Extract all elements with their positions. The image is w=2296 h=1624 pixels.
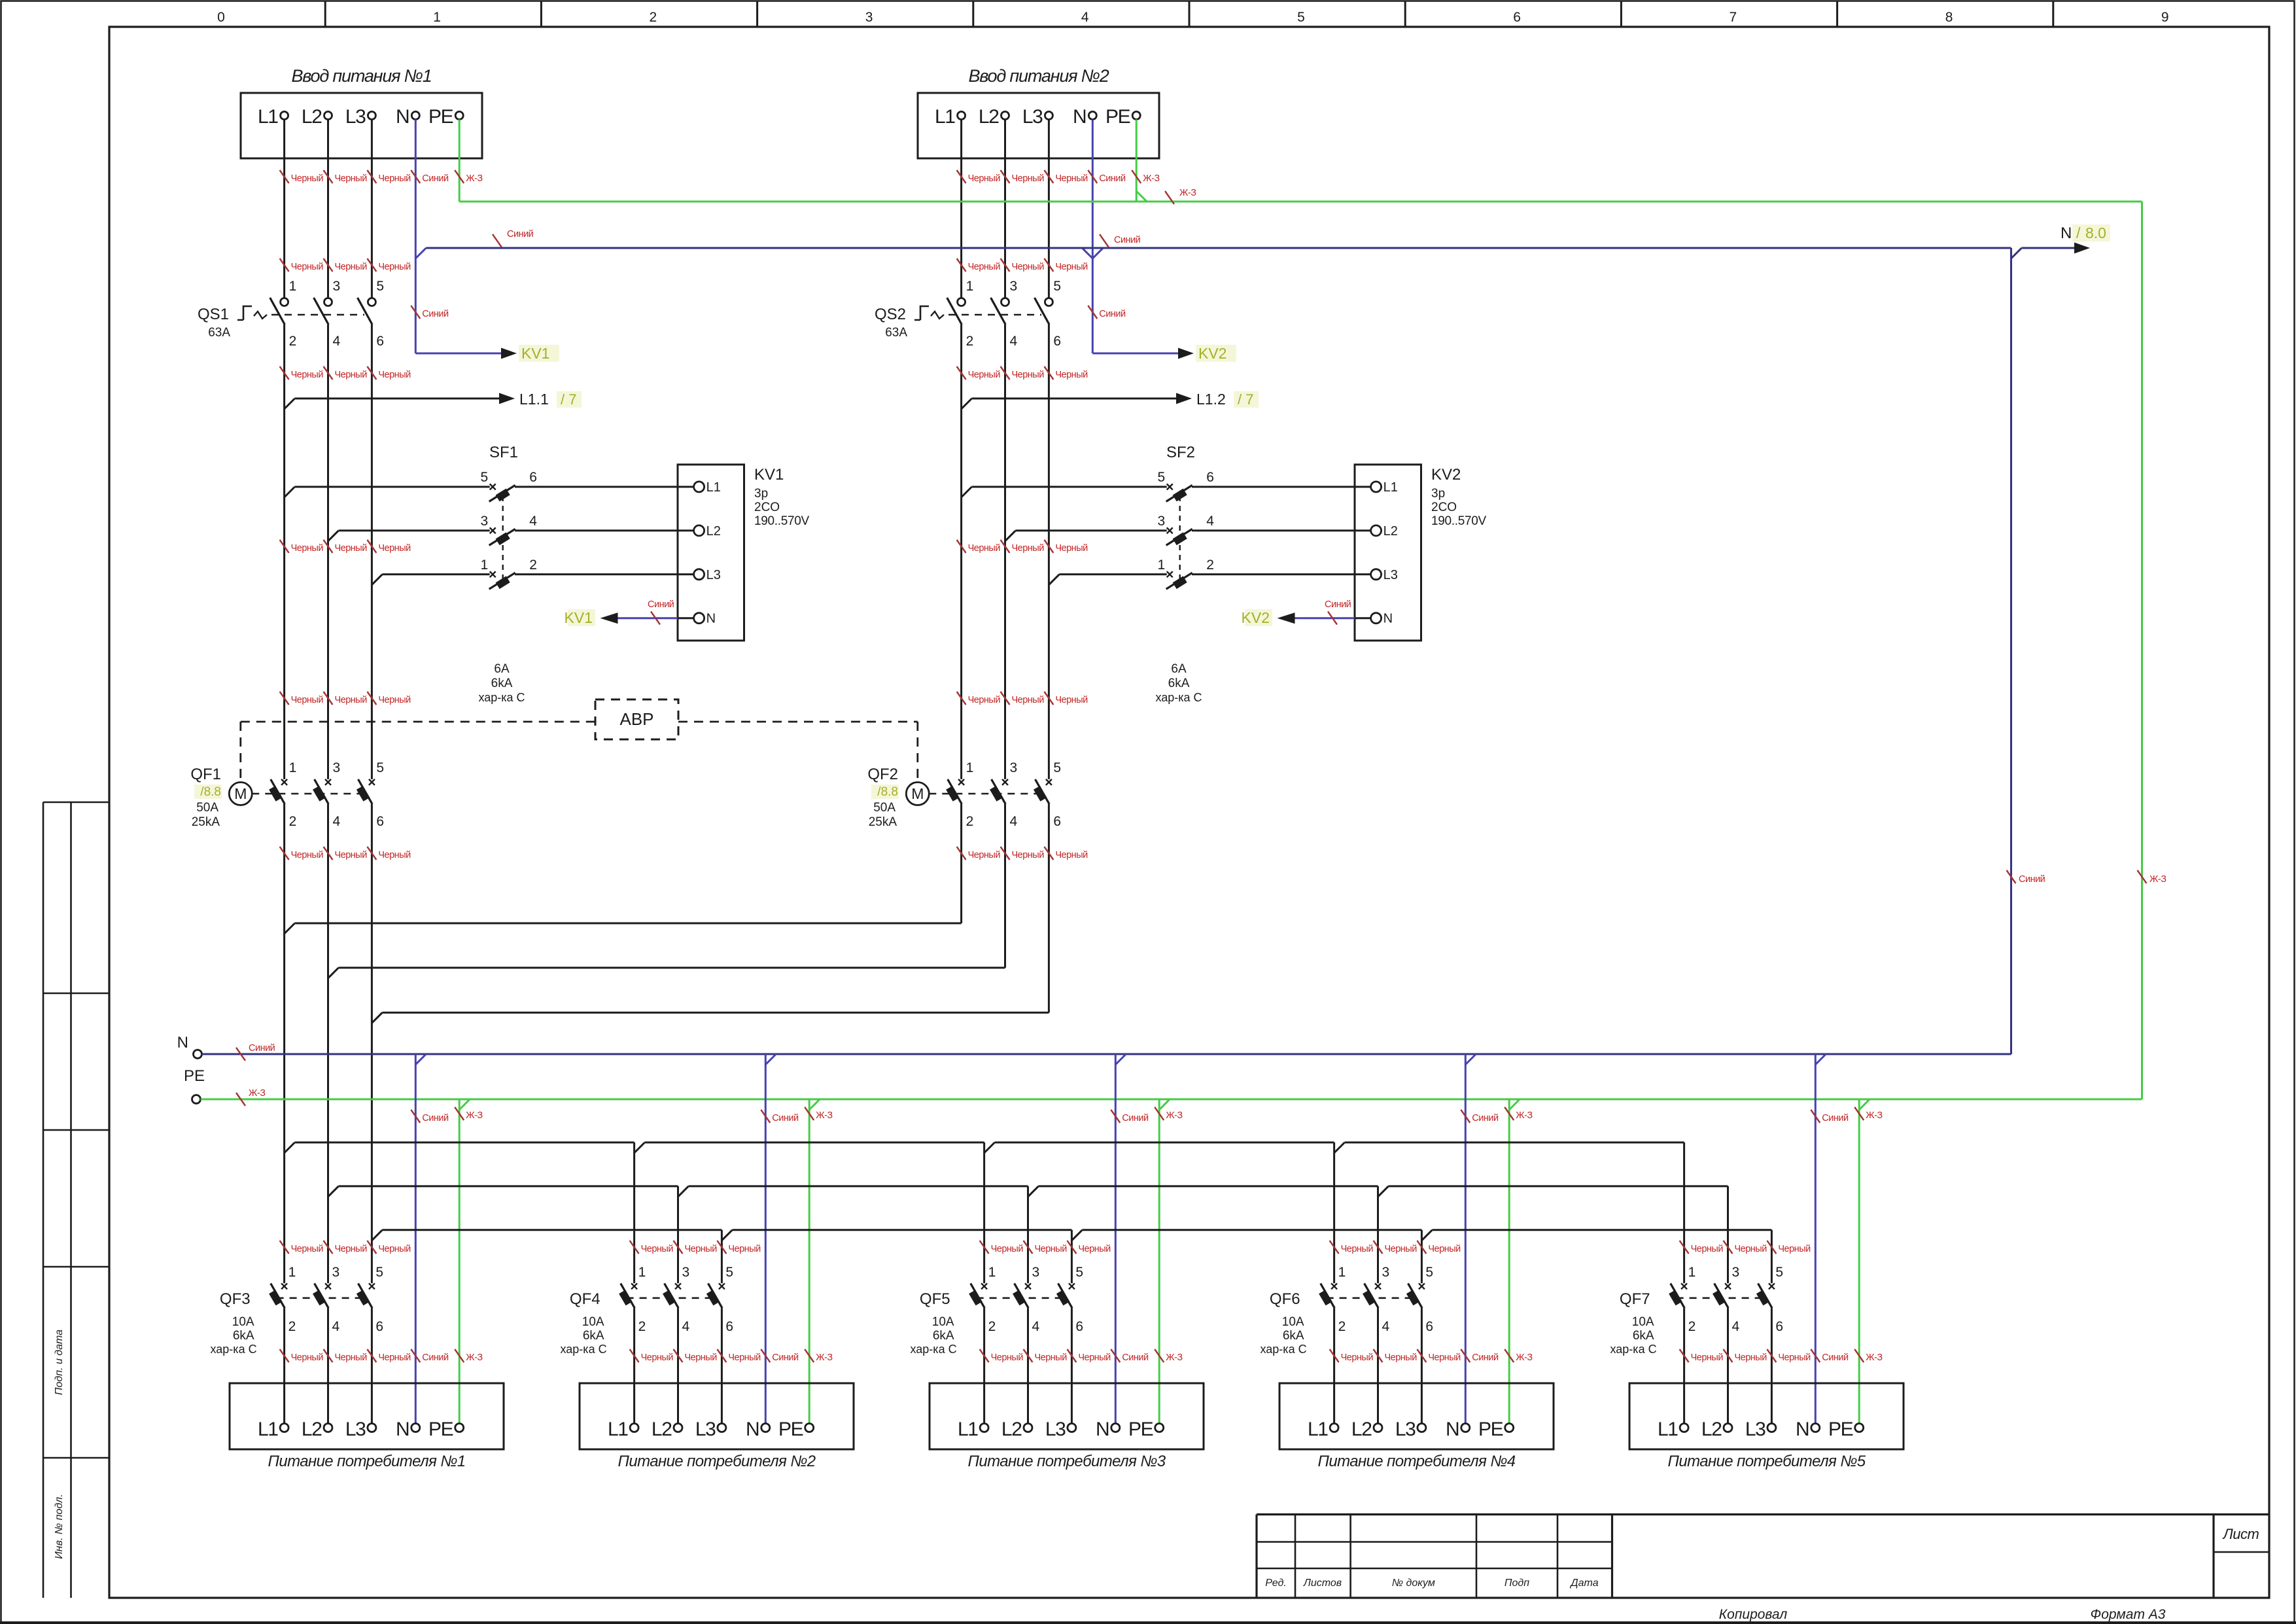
svg-text:АВР: АВР bbox=[619, 709, 653, 729]
input 2 terminal L1 bbox=[958, 112, 965, 120]
wire colour label Черный below QF4 x969 bbox=[630, 1349, 639, 1362]
svg-text:N: N bbox=[706, 612, 716, 626]
wire KV2 N to coil arrow bbox=[1355, 617, 1371, 619]
svg-text:Черный: Черный bbox=[1035, 1244, 1068, 1254]
junction PE bus drop group3 bbox=[1159, 1099, 1170, 1110]
junction PE bus drop group2 bbox=[809, 1099, 820, 1110]
svg-text:Черный: Черный bbox=[1055, 262, 1088, 272]
svg-text:1: 1 bbox=[289, 760, 297, 775]
svg-text:Ж-З: Ж-З bbox=[1166, 1352, 1183, 1363]
svg-text:L3: L3 bbox=[695, 1419, 716, 1440]
svg-text:Черный: Черный bbox=[1012, 695, 1045, 705]
wire colour label Ж-З below bus group2 bbox=[805, 1107, 814, 1120]
wire colour label Синий below bus group5 bbox=[1811, 1110, 1820, 1123]
svg-text:Черный: Черный bbox=[378, 850, 411, 860]
svg-text:Синий: Синий bbox=[648, 599, 674, 610]
wire input1 PE vertical bbox=[459, 120, 461, 202]
svg-text:QF1: QF1 bbox=[190, 766, 221, 783]
wire QF1 pole1 down to QF3 bbox=[283, 804, 285, 1284]
svg-text:PE: PE bbox=[1105, 106, 1130, 128]
svg-text:6kA: 6kA bbox=[583, 1329, 604, 1343]
svg-text:Черный: Черный bbox=[1385, 1352, 1418, 1363]
svg-text:4: 4 bbox=[1081, 10, 1089, 25]
svg-text:Питание потребителя №4: Питание потребителя №4 bbox=[1318, 1453, 1516, 1470]
svg-text:Черный: Черный bbox=[1078, 1352, 1111, 1363]
svg-text:1: 1 bbox=[988, 1265, 996, 1280]
wire colour label Ж-З below QF3 x702 bbox=[455, 1349, 464, 1362]
svg-text:Черный: Черный bbox=[1428, 1244, 1461, 1254]
wire QS1 pole2 down to QF1 bbox=[327, 325, 329, 779]
consumer 5 terminal L1 bbox=[1680, 1424, 1688, 1432]
wire colour label Синий below bus group2 bbox=[761, 1110, 770, 1123]
svg-text:4: 4 bbox=[333, 814, 341, 829]
svg-text:Черный: Черный bbox=[335, 370, 368, 380]
consumer box Питание потребителя №1 bbox=[230, 1383, 504, 1449]
svg-text:Черный: Черный bbox=[378, 370, 411, 380]
svg-text:6: 6 bbox=[1053, 334, 1061, 349]
title block table bbox=[1257, 1513, 2269, 1515]
wire colour label Синий above KV2 arrow bbox=[1088, 306, 1097, 319]
svg-text:Черный: Черный bbox=[728, 1352, 761, 1363]
wire colour label Ж-З below QF4 x1237 bbox=[805, 1349, 814, 1362]
wire colour label Ж-З below QF6 x2307 bbox=[1505, 1349, 1514, 1362]
wire colour label Синий below bus group3 bbox=[1111, 1110, 1120, 1123]
input 1 terminal L2 bbox=[324, 112, 332, 120]
wire colour label Черный above QS2 upper x1603 bbox=[1044, 258, 1053, 272]
input 1 terminal L1 bbox=[281, 112, 288, 120]
wire colour label Черный below QS1 x501 bbox=[324, 540, 333, 553]
svg-text:Копировал: Копировал bbox=[1719, 1607, 1788, 1622]
svg-text:N: N bbox=[177, 1034, 188, 1051]
svg-text:PE: PE bbox=[428, 106, 453, 128]
svg-text:Синий: Синий bbox=[1472, 1113, 1499, 1123]
svg-text:1: 1 bbox=[289, 279, 297, 294]
wire colour label Синий below QF4 x1170 bbox=[761, 1349, 770, 1362]
svg-text:6kA: 6kA bbox=[1168, 677, 1190, 690]
QF1 sheet ref bbox=[194, 785, 222, 799]
wire QF3 pole1 to consumer box bbox=[283, 1308, 285, 1423]
svg-text:L3: L3 bbox=[1395, 1419, 1416, 1440]
svg-text:6: 6 bbox=[376, 334, 384, 349]
svg-text:/ 7: / 7 bbox=[1238, 391, 1253, 408]
source arrow L1.1 /7 bbox=[499, 393, 515, 404]
wire colour label Ж-З input2 row x1737 bbox=[1132, 170, 1141, 183]
svg-text:7: 7 bbox=[1730, 10, 1737, 25]
breaker QF4 bbox=[631, 1283, 637, 1289]
svg-text:Черный: Черный bbox=[991, 1244, 1024, 1254]
svg-text:1: 1 bbox=[288, 1265, 296, 1280]
svg-text:Черный: Черный bbox=[685, 1244, 718, 1254]
wire input2 L2 to QS2 bbox=[1004, 120, 1006, 298]
svg-text:8: 8 bbox=[1945, 10, 1953, 25]
wire colour label Черный above QF1 x434 bbox=[280, 692, 289, 705]
wire colour label Черный below QF7 x2641 bbox=[1724, 1349, 1733, 1362]
consumer 2 terminal PE bbox=[805, 1424, 814, 1432]
wire colour label Черный below QF1 x568 bbox=[367, 847, 376, 860]
wire colour label Синий above KV1 arrow bbox=[411, 306, 420, 319]
consumer 3 terminal L1 bbox=[980, 1424, 988, 1432]
wire colour label Черный below QF2 x1603 bbox=[1044, 847, 1053, 860]
wire PE drop group4 bbox=[1508, 1099, 1510, 1424]
svg-text:Черный: Черный bbox=[335, 1352, 368, 1363]
svg-text:N: N bbox=[746, 1419, 759, 1440]
svg-text:Ж-З: Ж-З bbox=[2149, 874, 2166, 885]
svg-text:L2: L2 bbox=[302, 106, 322, 128]
svg-text:6: 6 bbox=[375, 1319, 383, 1334]
svg-text:хар-ка С: хар-ка С bbox=[478, 691, 525, 704]
svg-text:N: N bbox=[396, 1419, 409, 1440]
svg-text:Питание потребителя №1: Питание потребителя №1 bbox=[268, 1453, 466, 1470]
distribution row 3 segment to drop 3 bbox=[1082, 1229, 1421, 1231]
svg-text:5: 5 bbox=[1053, 760, 1061, 775]
wire KV1 N to coil arrow bbox=[678, 617, 694, 619]
wire drop row 3 to QF4 pole bbox=[721, 1230, 723, 1284]
wire QS2 pole2 down to QF2 bbox=[1004, 325, 1006, 779]
wire QF2 pole1 down to tie line 1 bbox=[960, 804, 962, 923]
wire colour label Черный below QF1 x434 bbox=[280, 847, 289, 860]
wire colour label Черный above QF5 x1571 bbox=[1024, 1241, 1033, 1254]
wire drop row 3 to QF5 pole bbox=[1071, 1230, 1073, 1284]
svg-text:5: 5 bbox=[1425, 1265, 1433, 1280]
svg-text:6kA: 6kA bbox=[1283, 1329, 1304, 1343]
junction row 1 drop 1 bbox=[635, 1142, 645, 1153]
wire colour label Черный above QS1 upper x501 bbox=[324, 258, 333, 272]
svg-text:Питание потребителя №2: Питание потребителя №2 bbox=[618, 1453, 816, 1470]
svg-text:N: N bbox=[1096, 1419, 1109, 1440]
svg-text:Черный: Черный bbox=[335, 1244, 368, 1254]
svg-text:3: 3 bbox=[1032, 1265, 1040, 1280]
svg-text:Синий: Синий bbox=[249, 1043, 275, 1053]
svg-text:KV1: KV1 bbox=[521, 345, 549, 362]
consumer 5 terminal N bbox=[1811, 1424, 1820, 1432]
svg-text:Черный: Черный bbox=[1341, 1244, 1374, 1254]
svg-text:6: 6 bbox=[529, 470, 537, 485]
svg-text:Синий: Синий bbox=[772, 1352, 799, 1363]
svg-text:8.0: 8.0 bbox=[2085, 224, 2106, 241]
junction N bus drop group3 bbox=[1115, 1054, 1126, 1065]
svg-text:9: 9 bbox=[2161, 10, 2169, 25]
top N horizontal line bbox=[426, 247, 2011, 249]
dashed link АВР to QF2 bbox=[678, 721, 918, 723]
svg-text:Ввод питания №1: Ввод питания №1 bbox=[291, 66, 431, 86]
svg-text:3: 3 bbox=[332, 1265, 340, 1280]
wire colour label Синий on top N line 2 bbox=[1100, 234, 1109, 247]
wire SF2 pin 6 to KV2 bbox=[1192, 486, 1371, 488]
svg-text:3: 3 bbox=[1732, 1265, 1740, 1280]
wire colour label Ж-З below bus group5 bbox=[1854, 1107, 1864, 1120]
svg-text:Черный: Черный bbox=[641, 1244, 674, 1254]
svg-text:Синий: Синий bbox=[1114, 235, 1141, 245]
svg-text:Черный: Черный bbox=[1735, 1352, 1767, 1363]
distribution row 2 segment to drop 1 bbox=[339, 1185, 678, 1187]
svg-text:2: 2 bbox=[966, 814, 974, 829]
junction row 1 drop 2 bbox=[984, 1142, 995, 1153]
junction PE bus drop group5 bbox=[1859, 1099, 1870, 1110]
wire QF2 pole2 down to tie line 2 bbox=[1004, 804, 1006, 968]
distribution row 2 origin jog bbox=[328, 1186, 339, 1197]
source arrow L1.2 /7 bbox=[1176, 393, 1192, 404]
svg-text:Черный: Черный bbox=[291, 262, 324, 272]
svg-text:Подп. и дата: Подп. и дата bbox=[54, 1330, 65, 1395]
svg-text:Ж-З: Ж-З bbox=[249, 1088, 266, 1099]
wire drop row 2 to QF5 pole bbox=[1027, 1186, 1029, 1283]
svg-text:Ж-З: Ж-З bbox=[1143, 173, 1160, 184]
svg-text:L3: L3 bbox=[706, 568, 721, 582]
svg-text:L2: L2 bbox=[979, 106, 999, 128]
wire input1 L1 to QS1 bbox=[283, 120, 285, 298]
wire QS1 pole3 down to QF1 bbox=[371, 325, 373, 779]
svg-text:L3: L3 bbox=[1745, 1419, 1765, 1440]
svg-text:/8.8: /8.8 bbox=[200, 785, 221, 799]
wire colour label Черный above QF2 x1536 bbox=[1001, 692, 1010, 705]
wire colour label Синий below bus group1 bbox=[411, 1110, 420, 1123]
breaker QF7 bbox=[1681, 1283, 1687, 1289]
svg-text:4: 4 bbox=[332, 1319, 340, 1334]
svg-text:Черный: Черный bbox=[1778, 1244, 1811, 1254]
distribution row 1 segment to drop 3 bbox=[995, 1142, 1334, 1144]
svg-text:Черный: Черный bbox=[291, 850, 324, 860]
consumer 2 terminal L3 bbox=[718, 1424, 726, 1432]
svg-text:2CO: 2CO bbox=[754, 501, 780, 514]
breaker QF1 motor drive M bbox=[229, 783, 252, 805]
svg-text:Черный: Черный bbox=[641, 1352, 674, 1363]
svg-text:25kА: 25kА bbox=[869, 815, 897, 829]
svg-text:4: 4 bbox=[1382, 1319, 1390, 1334]
svg-text:Черный: Черный bbox=[1078, 1244, 1111, 1254]
wire PE drop group1 bbox=[459, 1099, 461, 1424]
wire colour label Ж-З below bus group1 bbox=[455, 1107, 464, 1120]
svg-text:Ж-З: Ж-З bbox=[1516, 1110, 1533, 1121]
wire colour label Синий on N bus bbox=[236, 1048, 245, 1061]
junction N bus drop group1 bbox=[415, 1054, 426, 1065]
junction N bus drop group2 bbox=[765, 1054, 776, 1065]
svg-text:L1: L1 bbox=[608, 1419, 628, 1440]
wire colour label Черный above QF3 x434 bbox=[280, 1241, 289, 1254]
svg-text:PE: PE bbox=[184, 1067, 205, 1085]
wire QF3 pole3 to consumer box bbox=[371, 1308, 373, 1423]
svg-text:6: 6 bbox=[1206, 470, 1214, 485]
svg-text:Черный: Черный bbox=[968, 173, 1001, 184]
wire drop row 3 to QF7 pole bbox=[1771, 1230, 1773, 1284]
svg-text:Черный: Черный bbox=[1012, 543, 1045, 554]
wire colour label Синий below QF6 x2240 bbox=[1461, 1349, 1470, 1362]
wire drop row 2 to QF7 pole bbox=[1727, 1186, 1729, 1283]
svg-text:QF6: QF6 bbox=[1270, 1290, 1300, 1308]
svg-text:Черный: Черный bbox=[291, 370, 324, 380]
svg-text:L2: L2 bbox=[1001, 1419, 1022, 1440]
svg-text:N: N bbox=[1446, 1419, 1459, 1440]
wire colour label Черный below QF1 x501 bbox=[324, 847, 333, 860]
svg-text:Ж-З: Ж-З bbox=[1166, 1110, 1183, 1121]
wire colour label Черный above QS1 upper x568 bbox=[367, 258, 376, 272]
wire QF6 pole2 to consumer box bbox=[1377, 1308, 1379, 1423]
svg-text:Черный: Черный bbox=[291, 543, 324, 554]
wire N drop group5 bbox=[1815, 1054, 1817, 1424]
svg-text:2: 2 bbox=[1206, 557, 1214, 573]
consumer 5 terminal PE bbox=[1855, 1424, 1864, 1432]
wire colour label Черный above QF7 x2574 bbox=[1680, 1241, 1689, 1254]
svg-text:5: 5 bbox=[1053, 279, 1061, 294]
svg-text:1: 1 bbox=[1338, 1265, 1346, 1280]
wire SF1 pin 2 to KV1 bbox=[515, 573, 694, 575]
svg-text:4: 4 bbox=[1732, 1319, 1740, 1334]
wire colour label Ж-З below QF7 x2842 bbox=[1854, 1349, 1864, 1362]
svg-text:3: 3 bbox=[1382, 1265, 1390, 1280]
wire PE drop group3 bbox=[1158, 1099, 1160, 1424]
consumer 3 terminal N bbox=[1111, 1424, 1120, 1432]
svg-text:L1: L1 bbox=[1658, 1419, 1678, 1440]
svg-text:4: 4 bbox=[1206, 514, 1214, 529]
wire colour label Черный above QF6 x2173 bbox=[1417, 1241, 1426, 1254]
input 1 terminal L3 bbox=[368, 112, 375, 120]
svg-text:2: 2 bbox=[1338, 1319, 1346, 1334]
wire colour label Черный below QF7 x2708 bbox=[1767, 1349, 1776, 1362]
svg-text:6: 6 bbox=[1075, 1319, 1083, 1334]
wire colour label Черный below QF2 x1469 bbox=[957, 847, 966, 860]
tie line 1 QF1-QF2 bbox=[285, 923, 295, 934]
wire colour label Черный above QF6 x2039 bbox=[1330, 1241, 1339, 1254]
svg-text:3: 3 bbox=[333, 279, 341, 294]
consumer box Питание потребителя №2 bbox=[580, 1383, 854, 1449]
svg-text:хар-ка С: хар-ка С bbox=[1155, 691, 1202, 704]
wire QF6 pole3 to consumer box bbox=[1421, 1308, 1423, 1423]
wire QF7 pole3 to consumer box bbox=[1771, 1308, 1773, 1423]
wire colour label Черный above QS2 x1603 bbox=[1044, 366, 1053, 380]
KV1 terminal N bbox=[694, 613, 704, 624]
svg-text:0: 0 bbox=[217, 10, 225, 25]
svg-text:/ 7: / 7 bbox=[561, 391, 576, 408]
breaker QF5 bbox=[981, 1283, 987, 1289]
tie line 2 QF1-QF2 bbox=[328, 968, 339, 978]
distribution row 3 segment to drop 1 bbox=[382, 1229, 722, 1231]
junction row 3 drop 2 bbox=[1071, 1230, 1082, 1241]
svg-text:Синий: Синий bbox=[1099, 173, 1126, 184]
wire drop row 3 to QF6 pole bbox=[1421, 1230, 1423, 1284]
wire drop row 2 to QF4 pole bbox=[677, 1186, 679, 1283]
svg-text:SF1: SF1 bbox=[489, 444, 518, 461]
svg-text:Черный: Черный bbox=[378, 543, 411, 554]
wire colour label Черный above QF3 x501 bbox=[324, 1241, 333, 1254]
svg-text:5: 5 bbox=[1158, 470, 1166, 485]
svg-text:1: 1 bbox=[433, 10, 441, 25]
wire QF6 pole1 to consumer box bbox=[1333, 1308, 1335, 1423]
N bus bbox=[202, 1053, 2011, 1055]
svg-text:6: 6 bbox=[1425, 1319, 1433, 1334]
svg-text:3: 3 bbox=[481, 514, 489, 529]
distribution row 1 segment to drop 2 bbox=[645, 1142, 984, 1144]
wire colour label Черный below QS2 x1536 bbox=[1001, 540, 1010, 553]
wire QF5 pole1 to consumer box bbox=[983, 1308, 985, 1423]
svg-text:Черный: Черный bbox=[1055, 173, 1088, 184]
svg-text:6kA: 6kA bbox=[491, 677, 513, 690]
svg-text:3: 3 bbox=[682, 1265, 690, 1280]
consumer 4 terminal N bbox=[1461, 1424, 1470, 1432]
svg-text:Синий: Синий bbox=[1325, 599, 1351, 610]
svg-text:1: 1 bbox=[481, 557, 489, 573]
svg-text:N: N bbox=[1796, 1419, 1809, 1440]
svg-text:Листов: Листов bbox=[1303, 1578, 1342, 1589]
wire QS2 pole3 down to QF2 bbox=[1048, 325, 1050, 779]
consumer 4 terminal L2 bbox=[1374, 1424, 1382, 1432]
svg-text:PE: PE bbox=[1128, 1419, 1153, 1440]
wire colour label Ж-З input1 row x702 bbox=[455, 170, 464, 183]
wire QF3 pole2 to consumer box bbox=[327, 1308, 329, 1423]
svg-text:L3: L3 bbox=[345, 1419, 366, 1440]
wire N drop group2 bbox=[765, 1054, 767, 1424]
svg-text:Черный: Черный bbox=[1428, 1352, 1461, 1363]
wire colour label Черный above QS2 x1536 bbox=[1001, 366, 1010, 380]
svg-text:Черный: Черный bbox=[968, 370, 1001, 380]
wire KV1 source arrow line bbox=[415, 353, 501, 355]
wire colour label Синий on top N line 1 bbox=[493, 234, 502, 247]
wire colour label Синий below QF5 x1705 bbox=[1111, 1349, 1120, 1362]
wire tap 2 phase to SF2 pin 5 bbox=[962, 487, 972, 497]
wire L1.1 tap bbox=[285, 398, 295, 409]
wire colour label Черный below QF5 x1571 bbox=[1024, 1349, 1033, 1362]
svg-text:KV2: KV2 bbox=[1431, 466, 1461, 484]
svg-text:Черный: Черный bbox=[335, 543, 368, 554]
disconnector QS1 bbox=[281, 298, 288, 306]
wire colour label Черный above QF4 x1036 bbox=[674, 1241, 683, 1254]
svg-text:N: N bbox=[1073, 106, 1086, 128]
junction input2 PE at top PE line bbox=[1136, 191, 1147, 202]
svg-text:Синий: Синий bbox=[1822, 1352, 1849, 1363]
wire input2 L1 to QS2 bbox=[960, 120, 962, 298]
svg-text:Черный: Черный bbox=[685, 1352, 718, 1363]
svg-text:Черный: Черный bbox=[1055, 695, 1088, 705]
svg-text:6А: 6А bbox=[494, 662, 510, 676]
wire colour label Синий below QF7 x2775 bbox=[1811, 1349, 1820, 1362]
svg-text:6: 6 bbox=[1513, 10, 1521, 25]
svg-text:M: M bbox=[234, 785, 247, 802]
svg-text:Питание потребителя №3: Питание потребителя №3 bbox=[968, 1453, 1166, 1470]
svg-text:Ж-З: Ж-З bbox=[466, 1110, 483, 1121]
wire input2 PE vertical bbox=[1136, 120, 1138, 202]
svg-text:3: 3 bbox=[865, 10, 873, 25]
consumer box Питание потребителя №5 bbox=[1629, 1383, 1904, 1449]
tie line 3 QF1-QF2 bbox=[372, 1013, 382, 1023]
svg-text:Инв. № подл.: Инв. № подл. bbox=[54, 1494, 65, 1559]
right PE vertical bbox=[2141, 202, 2143, 1099]
wire colour label Синий below QF3 x635 bbox=[411, 1349, 420, 1362]
svg-text:1: 1 bbox=[638, 1265, 646, 1280]
svg-text:2: 2 bbox=[289, 814, 297, 829]
svg-text:6: 6 bbox=[376, 814, 384, 829]
disconnector QS2 bbox=[958, 298, 965, 306]
wire colour label Ж-З on PE bus bbox=[236, 1093, 245, 1106]
svg-text:QF5: QF5 bbox=[920, 1290, 950, 1308]
svg-text:L1: L1 bbox=[1308, 1419, 1328, 1440]
KV1 terminal L3 bbox=[694, 569, 704, 580]
svg-text:QS2: QS2 bbox=[875, 306, 906, 323]
wire SF2 pin 4 to KV2 bbox=[1192, 529, 1371, 531]
wire tap 1 phase to SF1 pin 1 bbox=[372, 574, 382, 585]
svg-text:2: 2 bbox=[966, 334, 974, 349]
svg-text:Черный: Черный bbox=[291, 1244, 324, 1254]
wire N drop group3 bbox=[1115, 1054, 1117, 1424]
wire colour label Черный below QF4 x1103 bbox=[717, 1349, 726, 1362]
wire colour label Черный below QF5 x1504 bbox=[980, 1349, 989, 1362]
wire QF5 pole3 to consumer box bbox=[1071, 1308, 1073, 1423]
svg-text:63А: 63А bbox=[885, 326, 907, 340]
wire PE drop group5 bbox=[1858, 1099, 1860, 1424]
svg-text:Лист: Лист bbox=[2222, 1526, 2259, 1542]
left margin attachment table bbox=[43, 802, 44, 1598]
wire input1 L2 to QS1 bbox=[327, 120, 329, 298]
svg-text:Ж-З: Ж-З bbox=[816, 1352, 833, 1363]
svg-text:SF2: SF2 bbox=[1166, 444, 1195, 461]
wire colour label Черный below QF7 x2574 bbox=[1680, 1349, 1689, 1362]
